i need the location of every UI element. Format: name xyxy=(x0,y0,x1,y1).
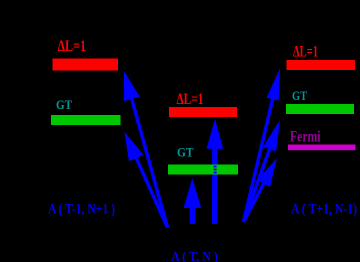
svg-text:ΔL=1: ΔL=1 xyxy=(58,38,87,55)
svg-text:A ( T-1, N+1 ): A ( T-1, N+1 ) xyxy=(48,202,115,218)
svg-text:GT: GT xyxy=(177,145,194,160)
level GT (middle, green bar) xyxy=(168,165,238,175)
svg-text:Fermi: Fermi xyxy=(290,129,321,146)
level GT (right, green bar) xyxy=(286,104,354,114)
arrow M2: A(T,N) to middle GT level xyxy=(190,206,196,224)
arrow R3: A(T,N) to right Fermi level xyxy=(244,182,265,222)
level GT (left, green bar) xyxy=(51,115,121,125)
level dL=1 (middle, red bar) xyxy=(169,107,237,117)
arrow L2: A(T,N) to left GT level xyxy=(135,156,167,227)
arrow M1 shaft dots through middle GT bar xyxy=(214,166,217,174)
arrow L1: A(T,N) to left dL=1 level xyxy=(131,97,167,228)
svg-text:A ( T+1, N-1): A ( T+1, N-1) xyxy=(291,202,357,218)
level Fermi (right, magenta bar) xyxy=(288,145,356,151)
level dL=1 (left, red bar) xyxy=(53,59,119,71)
arrow R1: A(T,N) to right dL=1 level xyxy=(244,97,274,222)
svg-text:A ( T, N ): A ( T, N ) xyxy=(171,250,218,262)
svg-text:ΔL=1: ΔL=1 xyxy=(177,91,204,108)
svg-text:ΔL=1: ΔL=1 xyxy=(293,43,318,60)
level dL=1 (right, red bar) xyxy=(287,60,356,70)
svg-text:GT: GT xyxy=(292,88,307,103)
arrow R2: A(T,N) to right GT level xyxy=(244,147,271,222)
arrow M1: A(T,N) to middle dL=1 level xyxy=(212,147,218,224)
svg-text:GT: GT xyxy=(56,97,72,112)
